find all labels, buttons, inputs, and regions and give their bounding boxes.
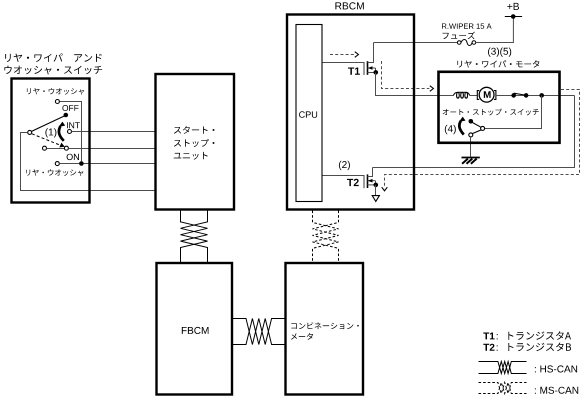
legend label: transistor A xyxy=(508,331,571,340)
transistor T1 (MOSFET): gate plate, channel, drain, body arrow, source xyxy=(364,43,378,76)
wire: INT to start-stop unit xyxy=(72,131,156,133)
label T1 xyxy=(348,68,360,75)
HS-CAN twisted pair: unit to FBCM xyxy=(181,211,208,264)
label (2) xyxy=(339,161,350,170)
wire: auto-stop switch to node c xyxy=(485,96,542,129)
legend colon after T2 xyxy=(497,345,498,350)
HS-CAN twisted pair: FBCM to combination meter xyxy=(233,319,286,345)
wire: T1 source down and right to motor xyxy=(376,73,454,96)
contact OFF (filled dot) xyxy=(64,113,69,118)
fuse R.WIPER 15A xyxy=(457,40,475,46)
box: rear wiper motor xyxy=(439,72,560,143)
+B terminal xyxy=(505,14,522,19)
legend label : HS-CAN xyxy=(535,365,577,372)
box: CPU xyxy=(296,25,322,202)
label: rear wiper and washer switch line2 xyxy=(4,66,102,75)
ground (chassis) under motor box xyxy=(462,158,480,164)
label: start-stop unit line1 xyxy=(174,126,215,134)
label (4) xyxy=(445,125,456,134)
label R.WIPER 15 A fuse rating xyxy=(442,24,492,29)
auto-stop switch link to lower contact xyxy=(473,130,481,134)
auto-stop switch upper contact (filled dot) xyxy=(469,119,474,124)
label (1) xyxy=(45,128,56,137)
dashed flow path: motor return to T2 with down arrowhead xyxy=(382,90,580,191)
node dot b xyxy=(524,93,529,98)
wire: T1 drain to fuse xyxy=(374,42,458,44)
wire: T2 source to ground arrow xyxy=(375,185,377,196)
legend label : MS-CAN xyxy=(535,387,578,394)
curved arrow (4) xyxy=(459,117,466,135)
label: combination meter line1 xyxy=(291,322,359,329)
curved arrow (1) xyxy=(59,122,66,141)
label (3)(5) xyxy=(488,48,511,57)
wire: CPU to T1 gate xyxy=(322,62,364,64)
wire: T2 drain rail to motor right side xyxy=(373,96,575,168)
legend symbol HS-CAN xyxy=(479,362,527,374)
legend label T2 xyxy=(483,344,494,351)
contact ON left (open circle) xyxy=(43,146,47,150)
box: FBCM xyxy=(157,263,233,395)
label: rear wiper and washer switch line1 xyxy=(5,53,102,62)
label: auto-stop switch xyxy=(443,109,539,116)
label: rear washer (top contact) xyxy=(27,88,84,95)
wire: CPU to T2 gate xyxy=(322,175,364,177)
label: start-stop unit line3 xyxy=(174,152,208,160)
label ON xyxy=(67,154,79,160)
contact: common (open circle) xyxy=(28,130,32,134)
legend symbol MS-CAN (dashed) xyxy=(479,383,527,394)
dashed flow path from T1 to motor with arrowhead xyxy=(382,61,434,91)
dashed arrow: CPU drive signal to T1 xyxy=(330,52,358,58)
contact ON right (open circle) xyxy=(64,146,68,150)
label: rear wiper motor xyxy=(457,60,539,67)
inductor (motor coil) xyxy=(453,92,469,98)
wire: motor to right side of box xyxy=(496,95,575,97)
wire: washer top contact to junction xyxy=(59,102,81,162)
label: combination meter line2 xyxy=(291,333,313,340)
contact: rear washer top (open circle) xyxy=(55,100,59,104)
node dot a xyxy=(511,93,516,98)
wire: auto-stop lower contact to ground xyxy=(470,137,472,157)
contact: rear washer bottom (open circle) xyxy=(55,162,59,166)
switch blade ghost (dashed, toward ON) with arrowhead xyxy=(32,134,65,148)
label RBCM xyxy=(335,2,363,9)
label M (motor) xyxy=(484,91,491,98)
label: fuse (katakana) xyxy=(443,32,475,40)
legend label: transistor B xyxy=(508,343,571,352)
auto-stop switch pivot (open circle) xyxy=(481,126,485,130)
node dot c xyxy=(539,93,544,98)
switch blade (solid, common to OFF) xyxy=(32,116,65,131)
wire: inductor to motor xyxy=(470,95,478,97)
label: start-stop unit line2 xyxy=(174,139,215,147)
box: combination meter xyxy=(286,263,364,395)
label CPU xyxy=(299,111,317,118)
wire: washer bottom to start-stop unit xyxy=(59,163,155,165)
ground: T2 source (open triangle) xyxy=(372,196,379,202)
box: start-stop unit xyxy=(156,74,235,210)
transistor T2 (MOSFET): gate plate, channel, drain, body arrow, source xyxy=(364,168,378,189)
motor M with brush brackets xyxy=(477,87,496,102)
node: washer junction dot xyxy=(79,161,84,166)
MS-CAN twisted pair (dashed): RBCM to combination meter xyxy=(313,211,339,264)
label T2 xyxy=(347,179,359,186)
label INT xyxy=(67,122,80,128)
label OFF xyxy=(62,105,78,111)
box: RBCM xyxy=(287,15,414,210)
label: rear washer (bottom contact) xyxy=(26,169,83,176)
label FBCM xyxy=(182,327,209,334)
wire: between ON contacts xyxy=(47,148,65,150)
legend colon after T1 xyxy=(497,334,498,339)
legend label T1 xyxy=(483,333,494,340)
contact INT (open circle) xyxy=(68,130,72,134)
wire: fuse to +B xyxy=(476,17,514,43)
wire: ON to start-stop unit xyxy=(68,148,155,150)
wire: common contact to start-stop unit xyxy=(21,133,156,191)
label +B xyxy=(507,3,519,10)
auto-stop switch lower contact (open circle) xyxy=(469,133,473,137)
auto-stop contact blade xyxy=(514,93,525,95)
box: rear wiper and washer switch xyxy=(12,79,90,203)
auto-stop switch blade xyxy=(472,122,481,127)
